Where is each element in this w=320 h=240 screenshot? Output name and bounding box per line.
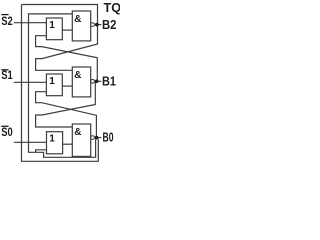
- wire feedback B0 to AND1 input via left inner bus: [29, 14, 96, 157]
- or-gate U1 "1" box cell1: [46, 18, 62, 40]
- node B2 junction dot: [95, 23, 99, 27]
- wire B1 node to label: [97, 80, 102, 82]
- inverting bubble cell3: [91, 136, 95, 140]
- wire B2 node down and diagonal to AND2 input: [36, 26, 98, 70]
- svg-text:1: 1: [49, 20, 55, 31]
- wire S2 input: [14, 22, 47, 24]
- node B0 junction dot: [95, 136, 99, 140]
- wire OR1 input2 from B1 node diagonal up: [36, 36, 98, 82]
- wire OR3 input2 from feedback bus: [36, 150, 47, 153]
- node B1 junction dot: [95, 79, 99, 83]
- svg-text:B2: B2: [102, 18, 117, 32]
- wire OR2 input2 from B0 node diagonal up: [36, 92, 97, 138]
- svg-text:&: &: [74, 70, 81, 81]
- wire OR2 output to AND2 input: [62, 85, 72, 87]
- wire B1 node down and diagonal to AND3 input: [36, 83, 96, 128]
- svg-text:1: 1: [49, 134, 55, 145]
- svg-text:TQ: TQ: [104, 0, 121, 15]
- inverting bubble cell1: [91, 23, 95, 27]
- wire OR3 output to AND3 input: [63, 143, 73, 145]
- svg-text:&: &: [74, 127, 81, 138]
- svg-text:S0: S0: [1, 125, 13, 139]
- svg-text:B0: B0: [103, 131, 114, 145]
- and-gate U4 "&" box cell2: [72, 67, 90, 97]
- svg-text:&: &: [74, 14, 81, 25]
- wire OR1 output to AND1 input: [62, 29, 72, 31]
- svg-text:S2: S2: [1, 14, 13, 28]
- or-gate U3 "1" box cell2: [46, 74, 62, 96]
- inverting bubble cell2: [91, 79, 95, 83]
- wire TQ top line from B2 node to left bus: [22, 5, 98, 25]
- svg-text:1: 1: [49, 76, 55, 87]
- wire B0 node to label: [97, 137, 102, 139]
- and-gate U2 "&" box cell1: [72, 11, 90, 41]
- wire left outer bus down and along bottom up to B0 node: [22, 5, 99, 162]
- input label S2-bar: [1, 14, 13, 28]
- input label S1-bar: [1, 68, 13, 82]
- and-gate U6 "&" box cell3: [72, 124, 90, 156]
- input label S0-bar: [1, 125, 13, 139]
- svg-text:B1: B1: [102, 75, 116, 89]
- or-gate U5 "1" box cell3: [47, 132, 63, 154]
- wire S0 input: [14, 141, 47, 143]
- wire S1 input: [14, 81, 47, 83]
- wire B2 node to label: [97, 24, 102, 26]
